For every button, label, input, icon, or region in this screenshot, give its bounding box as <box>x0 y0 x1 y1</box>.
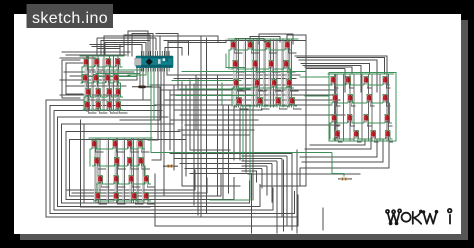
wire <box>217 76 219 196</box>
wire (green) <box>328 73 394 75</box>
wire <box>114 141 116 200</box>
wire <box>129 141 131 200</box>
wire <box>239 108 241 160</box>
Arduino Nano U1 <box>135 56 173 68</box>
pin <box>150 51 152 72</box>
wire <box>334 75 336 140</box>
pin <box>152 51 154 72</box>
wire <box>84 125 140 203</box>
pin <box>145 51 147 72</box>
wire <box>92 46 124 48</box>
LED TL13 <box>85 102 90 110</box>
wire <box>72 178 207 193</box>
LED R16 <box>385 131 390 139</box>
wire <box>322 208 324 230</box>
wire <box>97 139 99 202</box>
wire <box>120 45 142 56</box>
wire <box>300 140 377 157</box>
wire <box>168 41 189 56</box>
wire <box>131 164 139 169</box>
LED TL7 <box>105 75 110 83</box>
wire <box>119 95 127 100</box>
wire (green) <box>94 192 151 201</box>
wire (green) <box>81 67 83 83</box>
LED R11 <box>364 115 369 123</box>
wire <box>119 108 127 113</box>
wire <box>367 121 371 126</box>
wire <box>108 139 110 202</box>
wire <box>98 164 106 169</box>
wire <box>116 147 124 152</box>
wire (green) <box>89 149 91 166</box>
wire <box>290 86 298 91</box>
wire <box>131 141 133 200</box>
wire <box>336 75 338 140</box>
wire <box>111 59 113 109</box>
LED TM5 <box>233 61 238 69</box>
wire (green) <box>144 166 146 184</box>
wire <box>271 42 273 105</box>
wire <box>119 65 127 70</box>
wire <box>90 59 92 109</box>
wire <box>351 121 355 126</box>
wire <box>117 182 125 187</box>
wire (green) <box>172 80 241 82</box>
wire (green) <box>90 140 145 149</box>
wire <box>389 137 393 142</box>
wire (green) <box>153 68 155 120</box>
wire <box>274 42 276 105</box>
wire <box>170 153 292 230</box>
LED R5 <box>333 95 338 103</box>
wire (green) <box>232 79 294 88</box>
wire <box>101 182 109 187</box>
LED BM13 <box>95 193 100 201</box>
LED TL10 <box>96 89 101 97</box>
wire <box>259 40 261 107</box>
wire <box>160 36 218 42</box>
wire <box>367 83 371 88</box>
LED TL4 <box>115 59 120 67</box>
wire (green) <box>226 54 245 68</box>
wire (green) <box>235 97 297 106</box>
wire <box>185 124 340 126</box>
wire <box>197 78 199 215</box>
wire (green) <box>221 83 223 104</box>
wire <box>156 34 178 91</box>
LED TM15 <box>276 98 281 106</box>
wire <box>147 182 155 187</box>
wire <box>293 104 301 109</box>
wire <box>85 59 87 109</box>
wire <box>261 104 269 109</box>
wire <box>262 42 264 105</box>
wire <box>237 86 245 91</box>
LED TM16 <box>290 98 295 106</box>
LED R2 <box>346 77 351 85</box>
LED TL3 <box>106 59 111 67</box>
wire <box>103 57 105 111</box>
wire <box>110 108 118 113</box>
wire <box>150 84 332 86</box>
LED BM4 <box>138 141 143 149</box>
wire <box>70 140 222 197</box>
wire (green) <box>83 101 123 110</box>
wire (green) <box>176 94 255 96</box>
LED TL6 <box>94 75 99 83</box>
wire <box>236 40 238 107</box>
LED R13 <box>335 131 340 139</box>
LED TL2 <box>94 59 99 67</box>
wire <box>90 44 128 46</box>
wire <box>135 199 143 204</box>
wire <box>141 141 143 200</box>
wire <box>257 42 259 105</box>
wire <box>104 36 160 56</box>
wire <box>374 137 378 142</box>
wire <box>66 54 126 56</box>
LED TL8 <box>114 75 119 83</box>
wire <box>97 57 99 111</box>
LED TM8 <box>284 61 289 69</box>
LED TL11 <box>107 89 112 97</box>
pin <box>143 51 145 72</box>
wire <box>60 68 137 80</box>
wire <box>273 40 275 107</box>
wire (green) <box>96 175 151 184</box>
wire <box>117 57 119 111</box>
wire <box>370 101 374 106</box>
wire <box>180 114 345 116</box>
wire <box>128 31 148 56</box>
wire <box>98 65 106 70</box>
wire (green) <box>147 68 149 87</box>
wire <box>109 57 111 111</box>
wire <box>155 218 298 226</box>
wire <box>305 67 352 74</box>
wire <box>87 65 95 70</box>
wire <box>152 68 161 160</box>
wire <box>117 199 125 204</box>
wire (green) <box>329 76 390 85</box>
wire (green) <box>228 38 298 40</box>
wire <box>190 173 252 233</box>
wire <box>58 117 261 207</box>
wire <box>200 36 202 216</box>
LED TL5 <box>83 75 88 83</box>
LED TL16 <box>116 102 121 110</box>
wire (green) <box>80 55 124 57</box>
wire (green) <box>128 68 146 75</box>
wire <box>81 120 151 207</box>
wire <box>368 75 370 140</box>
wire <box>283 160 285 231</box>
wire <box>143 139 145 202</box>
wire <box>93 141 95 200</box>
wire <box>106 141 108 200</box>
wire (green) <box>84 88 123 97</box>
wire <box>193 84 195 205</box>
wire <box>92 57 94 111</box>
wire (green) <box>229 41 292 50</box>
wire <box>285 42 287 105</box>
wire <box>99 95 107 100</box>
LED R4 <box>383 77 388 85</box>
wire (green) <box>305 95 329 97</box>
LED BM15 <box>132 193 137 201</box>
wire <box>250 37 280 43</box>
pin <box>157 51 159 72</box>
wire <box>86 81 94 86</box>
wire <box>251 42 253 105</box>
wire <box>379 75 381 140</box>
wire <box>353 75 355 140</box>
wire <box>101 59 103 109</box>
LED TL12 <box>116 89 121 97</box>
wire <box>245 40 247 107</box>
wire <box>97 141 99 200</box>
wire <box>238 40 240 107</box>
wire (green) <box>89 137 152 139</box>
wire <box>233 106 235 160</box>
wire (green) <box>333 130 392 139</box>
LED TM2 <box>248 42 253 50</box>
wire <box>243 42 245 105</box>
wire <box>97 38 156 56</box>
LED BM16 <box>144 193 149 201</box>
wire <box>240 104 248 109</box>
wire <box>268 42 270 105</box>
wire <box>297 58 385 74</box>
wire <box>165 48 182 57</box>
wire <box>371 75 373 140</box>
wire <box>335 75 337 140</box>
wire <box>300 140 389 186</box>
wire <box>232 42 234 105</box>
wire <box>109 65 117 70</box>
LED R15 <box>371 131 376 139</box>
wire <box>235 39 264 43</box>
wire <box>95 139 97 202</box>
pin <box>164 51 166 72</box>
wire <box>97 81 105 86</box>
wire (green) <box>96 73 140 75</box>
pin <box>166 51 168 72</box>
wire <box>152 68 164 196</box>
wire <box>287 35 306 52</box>
wire <box>139 68 141 87</box>
wire (green) <box>290 69 292 88</box>
wire <box>154 174 156 226</box>
LED BM1 <box>92 141 97 149</box>
wire <box>234 40 236 107</box>
wire <box>182 134 250 136</box>
LED TL15 <box>107 102 112 110</box>
LED TM7 <box>269 61 274 69</box>
LED BM8 <box>138 158 143 166</box>
wire <box>386 101 390 106</box>
wire <box>242 161 277 233</box>
LED R1 <box>331 77 336 85</box>
wire <box>299 60 377 92</box>
wire <box>252 108 254 200</box>
LED TL9 <box>86 89 91 97</box>
wire <box>178 129 254 131</box>
wire <box>242 166 267 195</box>
wire <box>107 59 109 109</box>
wire (green) <box>210 106 250 200</box>
wire <box>303 65 361 92</box>
wire (green) <box>120 83 122 97</box>
wire <box>60 94 118 96</box>
LED TL1 <box>84 59 89 67</box>
wire <box>301 64 370 74</box>
LED BM9 <box>98 176 103 184</box>
wire <box>386 83 390 88</box>
wire <box>175 109 262 111</box>
wire <box>122 141 124 200</box>
wire <box>334 83 338 88</box>
pin <box>141 51 143 72</box>
wire <box>66 170 195 190</box>
LED BM7 <box>127 158 132 166</box>
LED TM1 <box>231 42 236 50</box>
wire <box>388 75 390 140</box>
wire <box>115 141 117 200</box>
LED TM4 <box>285 42 290 50</box>
wire <box>286 42 288 105</box>
wire (green) <box>300 76 328 78</box>
wire <box>124 35 150 56</box>
wire <box>173 85 175 170</box>
pin <box>154 51 156 72</box>
wire <box>95 141 97 200</box>
LED R10 <box>347 115 352 123</box>
wire (green) <box>82 58 122 67</box>
wire <box>116 139 118 202</box>
wire <box>185 86 187 176</box>
wire <box>260 40 306 186</box>
wire <box>124 139 126 202</box>
wire <box>296 150 298 233</box>
svg-text:sketch.ino: sketch.ino <box>32 10 108 27</box>
wire <box>256 40 258 107</box>
wire <box>180 163 272 202</box>
LED R8 <box>383 95 388 103</box>
wire <box>131 139 133 202</box>
wire <box>110 95 118 100</box>
wire <box>165 99 340 101</box>
wire <box>282 40 284 107</box>
wire <box>170 119 258 121</box>
wire (green) <box>95 184 97 201</box>
wire <box>307 69 345 92</box>
wire <box>242 156 287 225</box>
wire (green) <box>328 85 330 103</box>
wire <box>95 147 103 152</box>
wire <box>86 59 88 109</box>
wire <box>99 199 107 204</box>
wire (green) <box>329 73 396 142</box>
wire <box>338 137 342 142</box>
wire <box>288 40 290 107</box>
LED TM12 <box>287 80 292 88</box>
resistor R1 <box>132 86 152 89</box>
wire <box>167 68 196 130</box>
wire <box>70 75 130 77</box>
wire <box>361 75 363 140</box>
wire <box>245 108 247 172</box>
LED R14 <box>354 131 359 139</box>
LED TM9 <box>234 80 239 88</box>
wire <box>88 108 96 113</box>
wire <box>228 106 230 193</box>
wire <box>98 48 120 50</box>
wire <box>288 48 296 53</box>
wire (green) <box>330 114 392 123</box>
wire <box>117 81 125 86</box>
wire (green) <box>231 60 291 69</box>
wire <box>160 89 336 91</box>
LED R12 <box>385 115 390 123</box>
wire (green) <box>231 88 233 106</box>
wire <box>234 48 242 53</box>
pin <box>161 51 163 72</box>
wire (green) <box>182 71 306 73</box>
wire <box>242 171 257 182</box>
wire <box>109 81 117 86</box>
wire (green) <box>331 94 390 103</box>
wire (green) <box>93 157 146 166</box>
resistor R2 <box>163 165 178 168</box>
wire <box>343 75 345 140</box>
wire <box>169 90 171 150</box>
wire <box>148 68 158 140</box>
LED TM6 <box>253 61 258 69</box>
wire <box>113 57 115 111</box>
wire <box>349 83 353 88</box>
wire <box>185 168 262 188</box>
wire <box>236 67 244 72</box>
wire <box>60 57 96 59</box>
wire <box>46 100 298 217</box>
wire <box>272 67 280 72</box>
wire <box>117 139 119 202</box>
LED TM13 <box>237 98 242 106</box>
wire <box>175 158 282 217</box>
resistor R3 <box>338 178 352 181</box>
wire <box>86 57 88 111</box>
wire <box>190 80 230 150</box>
wire <box>258 86 266 91</box>
wire <box>99 108 107 113</box>
LED BM3 <box>127 141 132 149</box>
wire <box>357 137 361 142</box>
wire <box>135 141 137 200</box>
pin <box>168 51 170 72</box>
WOKWI logo <box>386 209 452 225</box>
wire <box>66 132 234 200</box>
LED R3 <box>364 77 369 85</box>
wire (green) <box>104 69 143 71</box>
LED BM11 <box>129 176 134 184</box>
wire <box>132 34 153 57</box>
wire <box>276 40 278 107</box>
wire <box>275 86 283 91</box>
LED TM10 <box>255 80 260 88</box>
pin <box>159 51 161 72</box>
wire <box>259 34 293 44</box>
